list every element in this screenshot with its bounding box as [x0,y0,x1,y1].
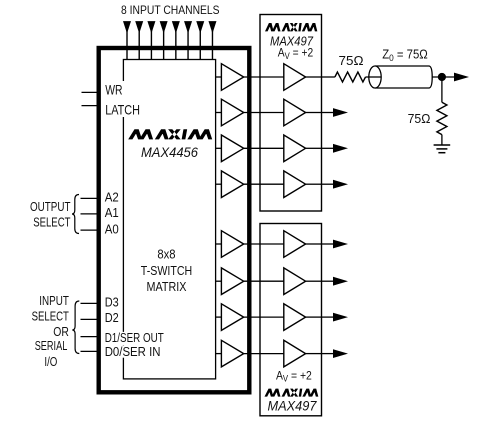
output arrow row 3 [333,144,348,153]
internal buffer row 8 [221,340,243,367]
pin A1 [81,213,99,215]
wire MAX497 out to resistor [322,76,335,78]
wire MAX497 buffer 7 output [306,316,322,318]
wire MAX497 buffer 6 output [306,280,322,282]
output wire row 4 [322,183,335,185]
MAX497 buffer row 1 [284,64,306,91]
wire matrix to buffer row 5 [216,243,221,245]
output wire row 7 [322,316,335,318]
input channel 8 arrowhead [208,21,216,33]
output arrow row 7 [333,313,348,322]
wire MAX497 buffer 3 output [306,147,322,149]
svg-text:D1/SER OUT: D1/SER OUT [105,330,164,345]
svg-text:A0: A0 [105,221,119,236]
wire MAX497 buffer 1 output [306,76,322,78]
wire MAX497 buffer 7 input [260,316,284,318]
internal buffer row 1 [221,64,243,91]
svg-text:MAX4456: MAX4456 [141,144,198,160]
svg-text:I/O: I/O [44,354,57,369]
output arrow row 6 [333,277,348,286]
svg-text:SELECT: SELECT [32,309,69,324]
pin D3 [81,302,99,304]
svg-text:OUTPUT: OUTPUT [30,199,71,214]
wire buffer row 7 to MAX497 [244,316,260,318]
MAX497 buffer row 8 [284,340,306,367]
wire-break mask (D0/SER IN) [104,346,162,358]
wire matrix to buffer row 1 [216,76,221,78]
8x8 T-switch matrix inner box [123,60,215,379]
MAX497 buffer row 6 [284,268,306,295]
internal buffer row 7 [221,304,243,331]
MAX497 buffer row 2 [284,99,306,126]
svg-text:SELECT: SELECT [33,214,70,229]
MAX4456 outer box [99,48,250,392]
MAX497 top box [260,15,322,212]
svg-text:MAX497: MAX497 [268,397,318,413]
wire-break mask (A pins) [104,190,120,236]
output arrow row 4 [333,180,348,189]
wire node down [441,77,443,102]
svg-text:T-SWITCH: T-SWITCH [141,263,192,278]
svg-text:75Ω: 75Ω [408,111,431,126]
svg-text:SERIAL: SERIAL [35,338,68,353]
output wire row 3 [322,147,335,149]
wire-break mask (WR/LATCH) [104,81,140,117]
pin A2 [81,197,99,199]
MAX497 buffer row 4 [284,171,306,198]
svg-text:Z0 = 75Ω: Z0 = 75Ω [382,47,428,63]
wire matrix to buffer row 8 [216,353,221,355]
MAX497 bottom box [260,224,322,416]
input channel 1 wire [126,30,128,60]
wire MAX497 buffer 5 input [260,243,284,245]
input channel 5 arrowhead [172,21,180,33]
MAX497 buffer row 5 [284,231,306,258]
input channel 3 arrowhead [147,21,155,33]
internal buffer row 3 [221,135,243,162]
pin A0 [81,229,99,231]
wire MAX497 buffer 5 output [306,243,322,245]
svg-text:A1: A1 [105,205,119,220]
wire-break mask (D1/SER OUT) [104,332,165,346]
wire coax to node [432,76,455,78]
output wire row 6 [322,280,335,282]
svg-text:WR: WR [105,82,122,98]
input channel 4 wire [163,30,165,60]
internal buffer row 6 [221,268,243,295]
input channel 2 wire [138,30,140,60]
ground symbol [434,144,451,146]
wire MAX497 buffer 6 input [260,280,284,282]
svg-text:MATRIX: MATRIX [147,279,187,294]
internal buffer row 2 [221,99,243,126]
resistor 75ohm series [335,72,366,82]
MAXIM logo (MAX4456) [128,129,212,139]
output wire row 2 [322,112,335,114]
output wire row 8 [322,353,335,355]
wire buffer row 3 to MAX497 [244,147,260,149]
pin LATCH [82,105,99,107]
svg-text:8 INPUT CHANNELS: 8 INPUT CHANNELS [121,3,220,17]
wire matrix to buffer row 6 [216,280,221,282]
output arrow row 8 [333,349,348,358]
output arrow row 1 [454,73,469,82]
node junction dot [438,73,446,81]
internal buffer row 5 [221,231,243,258]
svg-text:OR: OR [53,324,69,339]
pin D2 [81,318,99,320]
wire MAX497 buffer 2 input [260,112,284,114]
input channel 7 arrowhead [196,21,204,33]
wire buffer row 8 to MAX497 [244,353,260,355]
wire matrix to buffer row 4 [216,183,221,185]
wire buffer row 6 to MAX497 [244,280,260,282]
MAXIM logo (top MAX497) [265,23,317,31]
svg-text:LATCH: LATCH [105,101,140,117]
wire buffer row 2 to MAX497 [244,112,260,114]
input channel 5 wire [175,30,177,60]
input channel 4 arrowhead [160,21,168,33]
input channel 1 arrowhead [123,21,131,33]
wire buffer row 1 to MAX497 [244,76,260,78]
resistor 75ohm shunt [437,102,447,134]
input channel 8 wire [211,30,213,60]
MAXIM logo (bottom MAX497) [265,389,319,397]
pin WR [82,91,99,93]
output arrow row 5 [333,240,348,249]
svg-text:D2: D2 [105,310,119,325]
input channel 2 arrowhead [135,21,143,33]
svg-text:AV = +2: AV = +2 [276,370,312,384]
svg-text:8x8: 8x8 [157,247,175,262]
wire resistor to ground [441,135,443,145]
brace output select [72,195,79,234]
wire MAX497 buffer 8 input [260,353,284,355]
MAX497 buffer row 7 [284,304,306,331]
wire buffer row 4 to MAX497 [244,183,260,185]
wire MAX497 buffer 4 output [306,183,322,185]
svg-text:75Ω: 75Ω [339,53,364,68]
wire resistor to coax [366,76,382,78]
wire MAX497 buffer 3 input [260,147,284,149]
output wire row 5 [322,243,335,245]
wire matrix to buffer row 3 [216,147,221,149]
input channel 3 wire [150,30,152,60]
MAX497 buffer row 3 [284,135,306,162]
brace input select [72,301,79,354]
wire matrix to buffer row 2 [216,112,221,114]
input channel 6 arrowhead [184,21,192,33]
svg-text:D3: D3 [105,295,119,310]
svg-text:AV = +2: AV = +2 [278,47,313,61]
wire buffer row 5 to MAX497 [244,243,260,245]
wire MAX497 buffer 8 output [306,353,322,355]
svg-text:D0/SER IN: D0/SER IN [105,344,161,359]
wire MAX497 buffer 1 input [260,76,284,78]
wire MAX497 buffer 4 input [260,183,284,185]
coax cable Z0=75ohm [375,66,432,88]
input channel 7 wire [199,30,201,60]
input channel 6 wire [187,30,189,60]
wire MAX497 buffer 2 output [306,112,322,114]
pin D0/SER IN [81,350,99,352]
wire matrix to buffer row 7 [216,316,221,318]
pin D1/SER OUT [81,336,99,338]
output arrow row 2 [333,108,348,117]
svg-text:A2: A2 [105,190,119,205]
svg-text:INPUT: INPUT [39,293,69,308]
internal buffer row 4 [221,171,243,198]
